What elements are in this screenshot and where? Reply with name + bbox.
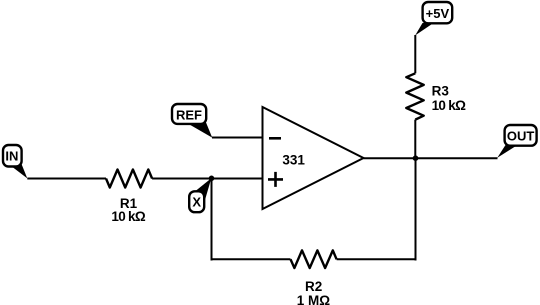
wire +5V down to R3	[414, 35, 416, 73]
svg-text:X: X	[192, 194, 201, 209]
svg-text:R2: R2	[305, 279, 322, 294]
wire R1 to op-amp + input (node X)	[152, 178, 262, 180]
svg-text:331: 331	[282, 152, 305, 167]
resistor R1	[106, 170, 152, 188]
svg-text:IN: IN	[5, 149, 18, 164]
net flag OUT	[497, 125, 536, 158]
label R2 designator	[305, 279, 322, 294]
label R2 value 1 MOhm	[297, 293, 331, 305]
junction output node	[413, 155, 419, 161]
svg-text:10 kΩ: 10 kΩ	[111, 209, 145, 224]
wire R3 to output node	[414, 120, 416, 159]
label R1 value 10 kOhm	[111, 209, 145, 224]
resistor R3	[406, 73, 423, 119]
power flag +5V	[415, 2, 452, 35]
wire op-amp output to OUT	[364, 157, 498, 159]
wire REF to op-amp - input	[212, 137, 263, 139]
wire feedback bottom left segment	[212, 258, 291, 260]
wire R2 to right leg	[337, 258, 416, 260]
wire node X down to feedback	[211, 178, 213, 260]
svg-text:R3: R3	[432, 84, 450, 99]
label R1 designator	[120, 196, 138, 211]
svg-text:OUT: OUT	[507, 129, 535, 144]
label R3 designator	[432, 84, 450, 99]
svg-text:+5V: +5V	[426, 6, 450, 21]
resistor R2	[291, 250, 337, 268]
op-amp 331	[263, 107, 364, 209]
junction node X	[209, 176, 215, 182]
label R3 value 10 kOhm	[432, 98, 466, 113]
net flag X	[189, 178, 211, 212]
svg-text:1 MΩ: 1 MΩ	[297, 293, 331, 305]
svg-text:10 kΩ: 10 kΩ	[432, 98, 466, 113]
net flag IN	[3, 145, 27, 178]
net flag REF	[172, 104, 212, 138]
wire output node down (right leg of feedback)	[415, 158, 417, 260]
wire IN to R1	[27, 178, 106, 180]
svg-text:REF: REF	[176, 108, 202, 123]
